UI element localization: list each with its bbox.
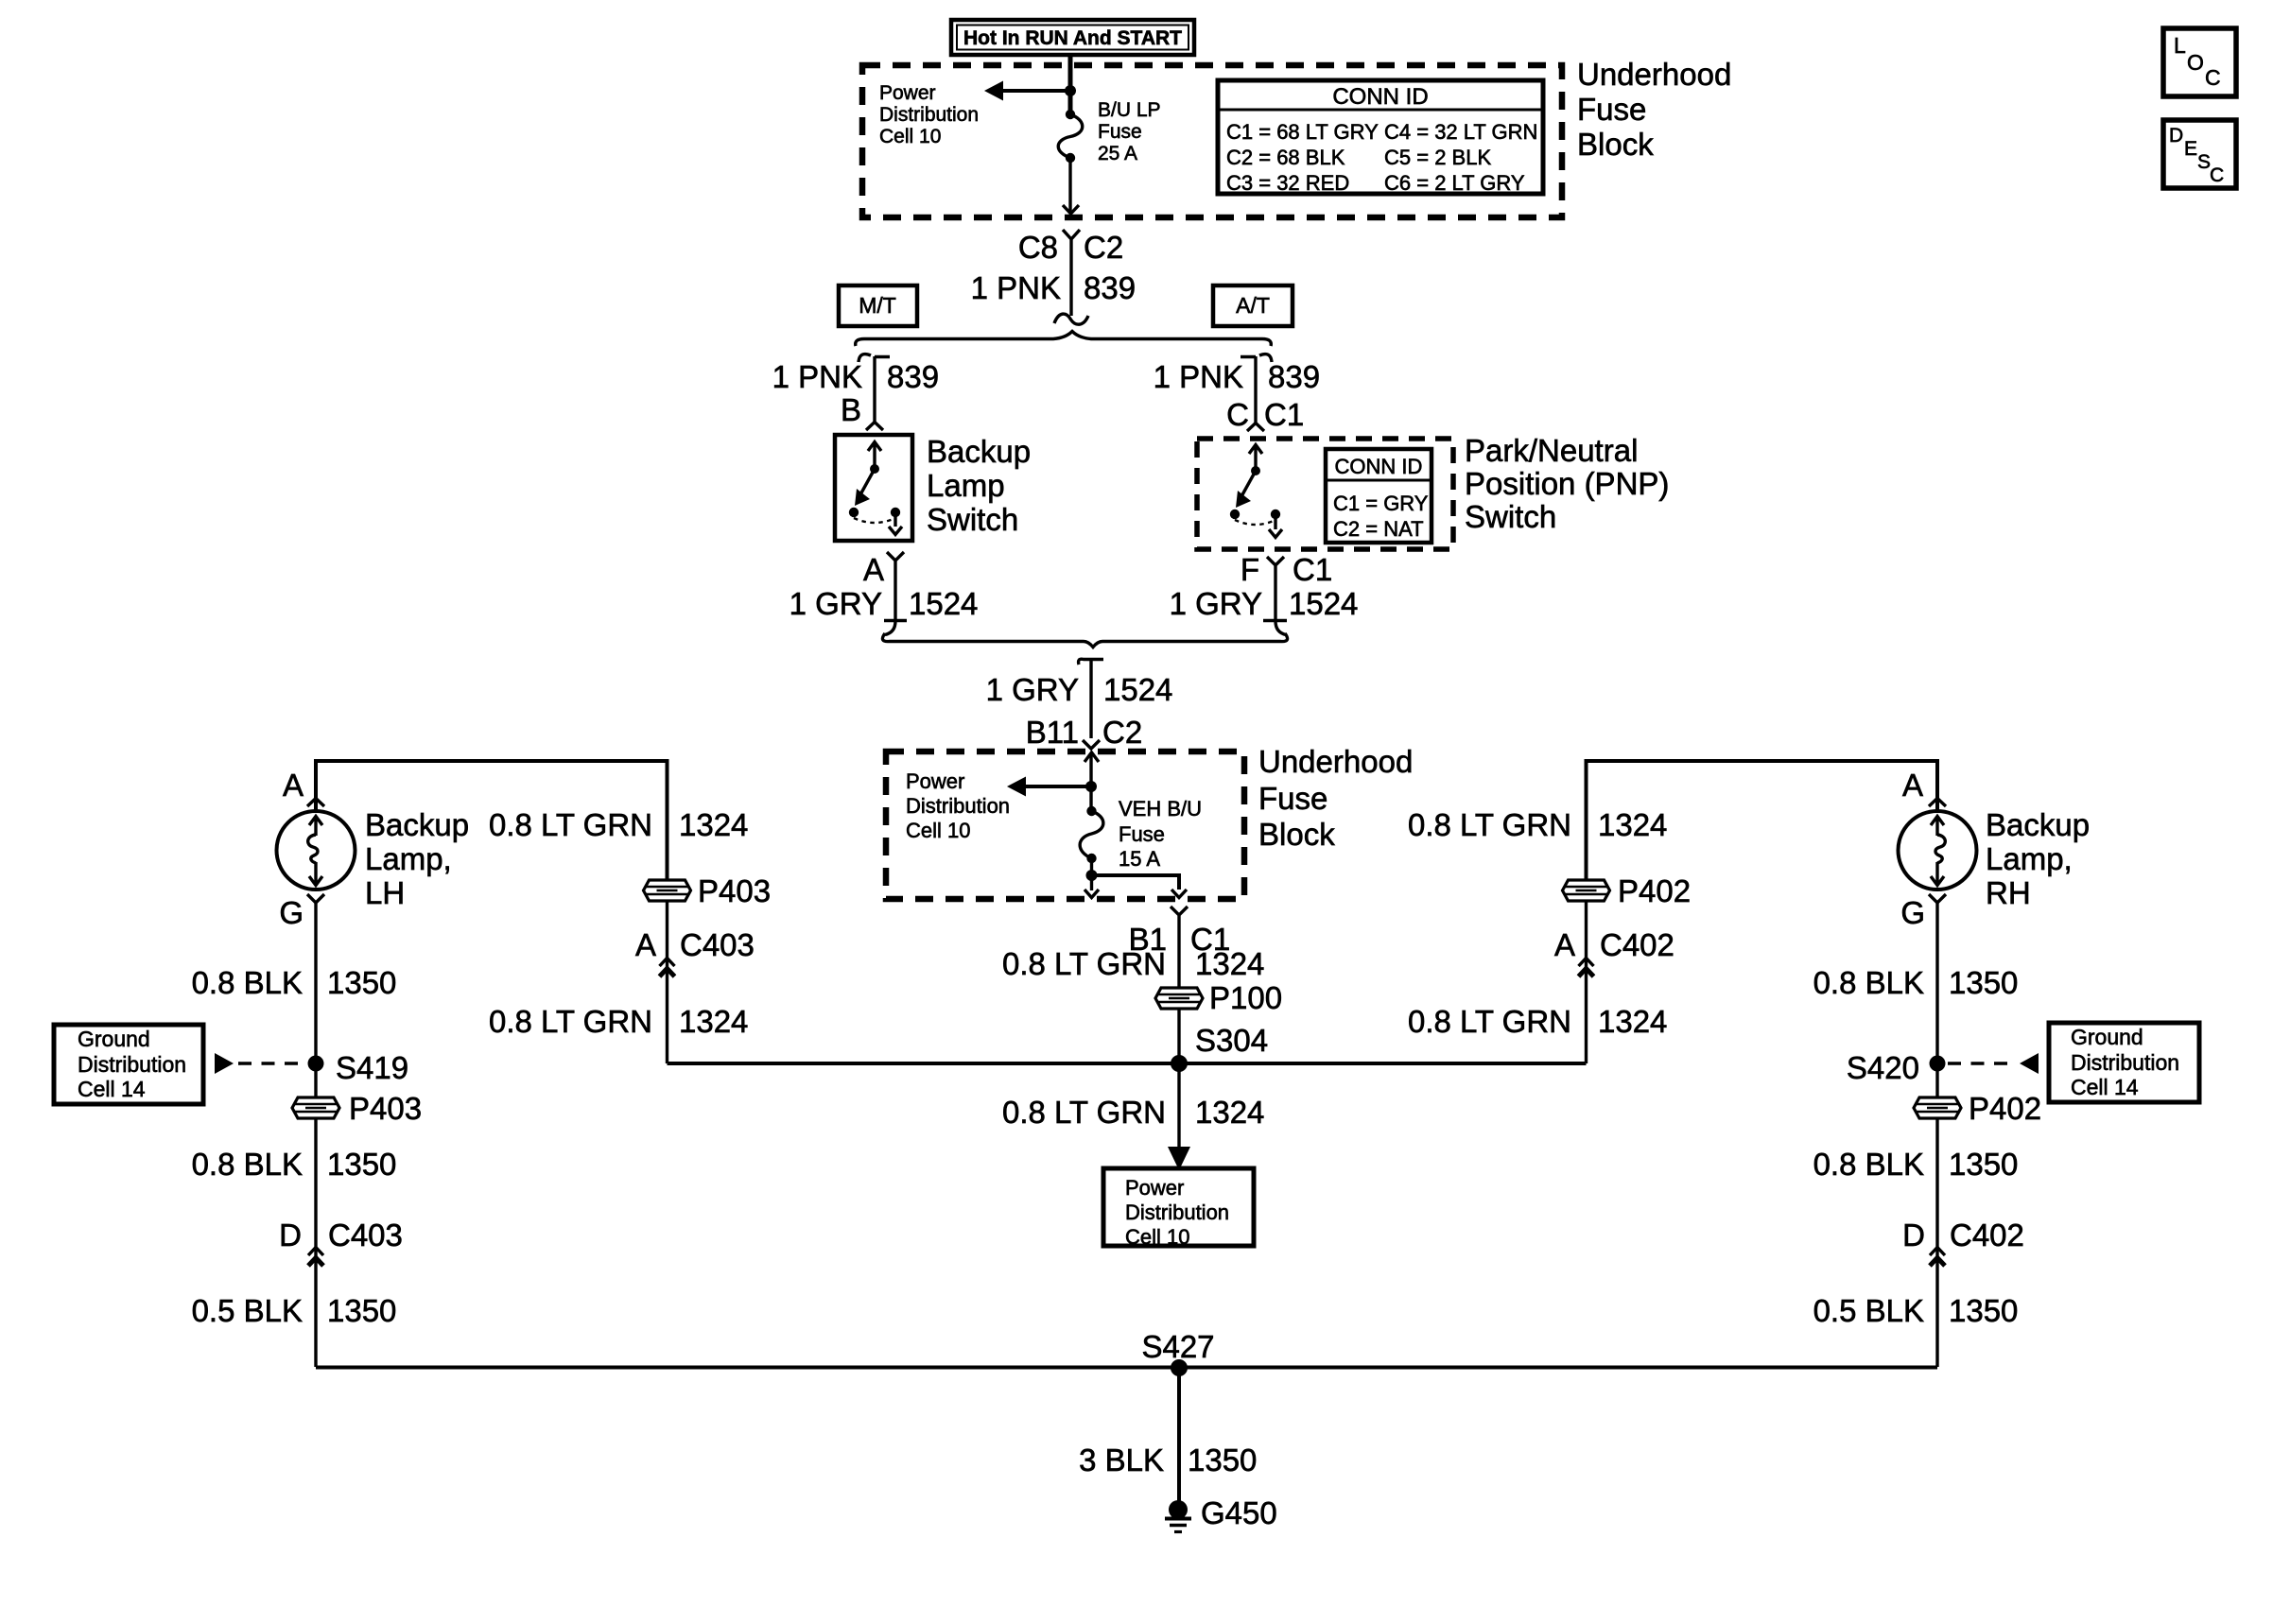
power distribution cell 10 destination box <box>1103 1168 1254 1249</box>
svg-text:C5 = 2 BLK: C5 = 2 BLK <box>1384 146 1491 169</box>
svg-text:D: D <box>279 1218 302 1253</box>
svg-text:Underhood: Underhood <box>1577 57 1731 92</box>
svg-text:G450: G450 <box>1201 1495 1277 1530</box>
wire fuse output down with arrowhead <box>1084 858 1099 898</box>
wire S304 down to power distribution <box>1177 1063 1180 1149</box>
park/neutral position switch dashed box <box>1197 439 1453 549</box>
wire lamp RH ground lead <box>1935 903 1938 1097</box>
node splice S304 <box>1171 1055 1188 1072</box>
svg-text:Position (PNP): Position (PNP) <box>1465 466 1669 501</box>
svg-text:Cell 14: Cell 14 <box>2071 1075 2139 1099</box>
ground distribution reference box (left) <box>54 1025 203 1104</box>
backup lamp switch internal contacts <box>849 441 902 535</box>
svg-text:Distribution: Distribution <box>2071 1050 2179 1075</box>
svg-text:0.8 LT GRN: 0.8 LT GRN <box>489 1004 652 1039</box>
svg-text:Switch: Switch <box>1465 499 1556 534</box>
svg-text:1 PNK: 1 PNK <box>772 359 862 394</box>
backup lamp RH bulb <box>1899 811 1977 890</box>
svg-text:1524: 1524 <box>1289 586 1358 621</box>
svg-text:G: G <box>279 895 304 930</box>
connector chevron into PNP switch <box>1247 423 1264 432</box>
svg-text:Fuse: Fuse <box>1119 822 1165 846</box>
wire hook into merge bracket (left) <box>885 621 895 635</box>
node junction at power distribution tap <box>1065 85 1076 96</box>
connector C8/C2 (fuse block output) <box>1018 230 1123 316</box>
svg-text:S420: S420 <box>1847 1050 1919 1085</box>
node splice S427 <box>1171 1359 1188 1376</box>
svg-text:0.8 LT GRN: 0.8 LT GRN <box>489 807 652 842</box>
svg-text:D: D <box>1902 1218 1925 1253</box>
svg-text:1350: 1350 <box>1949 1147 2018 1182</box>
svg-text:Cell 14: Cell 14 <box>78 1077 146 1101</box>
underhood fuse block 2 dashed box <box>886 752 1244 899</box>
CONN ID table (PNP switch) <box>1326 449 1431 543</box>
node tap to power distribution <box>1085 781 1097 792</box>
svg-text:839: 839 <box>1268 359 1320 394</box>
wire top rail right (C402 branch to lamp RH) <box>1587 761 1938 881</box>
svg-text:1324: 1324 <box>1195 1095 1264 1130</box>
connector chevron into lamp RH <box>1929 799 1946 807</box>
node fuse output branch <box>1086 870 1098 881</box>
svg-text:0.8 LT GRN: 0.8 LT GRN <box>1002 946 1166 981</box>
svg-text:Lamp: Lamp <box>927 468 1005 503</box>
svg-text:Power: Power <box>906 769 964 793</box>
wire P100 to S304 <box>1177 1010 1180 1063</box>
connector chevron into lamp LH <box>307 799 324 807</box>
svg-text:P100: P100 <box>1209 980 1282 1015</box>
connector A/C402 <box>1554 927 1674 976</box>
svg-text:C403: C403 <box>328 1218 403 1253</box>
svg-text:S: S <box>2197 151 2211 173</box>
svg-text:RH: RH <box>1986 875 2031 910</box>
connector Y below lamp RH <box>1929 894 1946 903</box>
svg-text:1 GRY: 1 GRY <box>1170 586 1262 621</box>
svg-text:839: 839 <box>1084 270 1136 305</box>
svg-text:Fuse: Fuse <box>1098 121 1142 143</box>
inline connector at top of M/T branch <box>859 354 890 362</box>
split bracket M/T vs A/T <box>856 332 1272 347</box>
svg-text:Switch: Switch <box>927 502 1018 537</box>
svg-text:L: L <box>2174 33 2186 58</box>
svg-text:C1 = GRY: C1 = GRY <box>1333 492 1429 515</box>
svg-text:Ground: Ground <box>78 1027 150 1051</box>
svg-text:C1 = 68 LT GRY: C1 = 68 LT GRY <box>1226 120 1379 144</box>
svg-text:M/T: M/T <box>859 293 896 318</box>
connector D/C403 <box>279 1218 403 1266</box>
svg-text:1524: 1524 <box>1103 672 1172 707</box>
svg-text:C1: C1 <box>1264 397 1304 432</box>
svg-text:Lamp,: Lamp, <box>365 841 452 876</box>
svg-text:C6 = 2 LT GRY: C6 = 2 LT GRY <box>1384 171 1525 195</box>
svg-text:0.8 BLK: 0.8 BLK <box>1813 1147 1924 1182</box>
svg-text:1350: 1350 <box>1949 1293 2018 1328</box>
connector B1/C1 below fuse block 2 <box>1129 907 1231 987</box>
dashed ground reference pointer (left) <box>215 1053 234 1074</box>
svg-text:1324: 1324 <box>679 1004 748 1039</box>
wire arrow to Power Distribution (block 2) <box>1022 785 1091 788</box>
svg-text:C: C <box>2205 65 2221 90</box>
svg-text:C3 = 32 RED: C3 = 32 RED <box>1226 171 1349 195</box>
connector A below switch <box>863 552 907 621</box>
dashed ground reference pointer (right) <box>1948 1062 2015 1065</box>
svg-text:C403: C403 <box>680 927 755 962</box>
svg-text:Power: Power <box>1125 1176 1184 1200</box>
svg-text:A: A <box>635 927 656 962</box>
ground G450 symbol <box>1165 1495 1277 1532</box>
grommet P402 (inner branch) <box>1563 873 1692 908</box>
svg-text:0.5 BLK: 0.5 BLK <box>1813 1293 1924 1328</box>
wire below P403 <box>314 1119 317 1367</box>
svg-text:Cell 10: Cell 10 <box>1125 1225 1189 1249</box>
svg-text:P402: P402 <box>1969 1091 2041 1126</box>
svg-text:0.8 BLK: 0.8 BLK <box>1813 965 1924 1000</box>
svg-text:C: C <box>1226 397 1249 432</box>
svg-text:1350: 1350 <box>327 965 396 1000</box>
node splice S419 <box>308 1056 324 1072</box>
svg-text:B11: B11 <box>1026 715 1079 750</box>
backup lamp switch box <box>835 435 912 541</box>
svg-text:E: E <box>2184 138 2197 160</box>
option box M/T <box>839 285 917 326</box>
inline connector at top of A/T branch <box>1241 354 1272 362</box>
svg-text:Backup: Backup <box>1986 807 2090 842</box>
arrowhead into power distribution box <box>1168 1147 1190 1170</box>
wire inner right branch lamp feed <box>1585 900 1588 1063</box>
svg-text:1350: 1350 <box>1949 965 2018 1000</box>
fuse VEH B/U Fuse 15 A <box>1080 806 1103 863</box>
svg-text:839: 839 <box>887 359 939 394</box>
svg-text:C: C <box>2210 164 2224 186</box>
svg-text:0.8 LT GRN: 0.8 LT GRN <box>1408 1004 1571 1039</box>
legend box LOC <box>2163 28 2236 96</box>
svg-text:A: A <box>1554 927 1575 962</box>
svg-text:C2: C2 <box>1084 230 1123 265</box>
wire inner left branch lamp feed <box>666 900 668 1063</box>
connector chevron into backup lamp switch <box>866 423 883 431</box>
svg-text:Power: Power <box>879 82 936 104</box>
svg-text:Cell 10: Cell 10 <box>879 126 941 147</box>
wire branch right and down with arrowhead <box>1092 875 1180 890</box>
svg-text:0.8 LT GRN: 0.8 LT GRN <box>1002 1095 1166 1130</box>
svg-text:CONN ID: CONN ID <box>1335 455 1423 478</box>
svg-text:Hot In RUN And START: Hot In RUN And START <box>963 27 1182 49</box>
svg-text:C402: C402 <box>1950 1218 2024 1253</box>
svg-text:B/U LP: B/U LP <box>1098 99 1161 121</box>
wire feed from Hot box <box>1068 55 1073 114</box>
svg-text:Backup: Backup <box>927 434 1031 469</box>
svg-text:1324: 1324 <box>679 807 748 842</box>
svg-text:A: A <box>283 768 304 803</box>
PNP switch internal contacts <box>1230 444 1282 538</box>
svg-text:A: A <box>1902 768 1923 803</box>
node splice S420 <box>1930 1056 1946 1072</box>
wire below P402 <box>1935 1119 1938 1367</box>
svg-text:Block: Block <box>1258 817 1335 852</box>
legend box DESC <box>2163 120 2236 188</box>
svg-text:1324: 1324 <box>1195 946 1264 981</box>
grommet P100 <box>1155 980 1282 1015</box>
splice tilde on feed wire <box>1054 314 1088 324</box>
underhood fuse block 1 dashed box <box>862 65 1562 217</box>
wire lamp LH ground lead <box>314 903 317 1097</box>
svg-text:0.8 BLK: 0.8 BLK <box>192 1147 303 1182</box>
svg-text:15 A: 15 A <box>1119 847 1160 871</box>
grommet P403 (inner branch) <box>644 873 772 908</box>
svg-text:1324: 1324 <box>1598 1004 1667 1039</box>
svg-text:1350: 1350 <box>327 1147 396 1182</box>
svg-text:Distribution: Distribution <box>78 1052 186 1077</box>
svg-text:C2 = 68 BLK: C2 = 68 BLK <box>1226 146 1345 169</box>
option box A/T <box>1213 285 1293 326</box>
wire S427 to ground G450 <box>1177 1368 1181 1503</box>
svg-text:P403: P403 <box>698 873 771 908</box>
connector F/C1 below PNP switch <box>1241 552 1332 621</box>
svg-text:D: D <box>2169 125 2183 147</box>
fuse B/U LP Fuse 25 A <box>1058 110 1083 163</box>
wire long feed bus between branches <box>668 1062 1587 1065</box>
connector B11/C2 <box>1026 715 1142 750</box>
svg-text:VEH B/U: VEH B/U <box>1119 797 1202 821</box>
wire A/T branch <box>1254 356 1257 423</box>
wire merged 1 GRY to fuse block 2 <box>1089 660 1092 738</box>
svg-text:3 BLK: 3 BLK <box>1079 1443 1164 1477</box>
connector D/C402 <box>1902 1218 2024 1266</box>
svg-text:Block: Block <box>1577 127 1654 162</box>
svg-text:S427: S427 <box>1141 1329 1214 1364</box>
grommet P402 (lamp branch) <box>1914 1091 2041 1126</box>
svg-text:Backup: Backup <box>365 807 469 842</box>
svg-text:0.5 BLK: 0.5 BLK <box>192 1293 303 1328</box>
svg-text:P403: P403 <box>349 1091 422 1126</box>
CONN ID table (fuse block 1) <box>1218 80 1543 195</box>
svg-text:Fuse: Fuse <box>1258 781 1327 816</box>
svg-text:C2 = NAT: C2 = NAT <box>1333 517 1424 541</box>
svg-text:Park/Neutral: Park/Neutral <box>1465 433 1638 468</box>
svg-text:1324: 1324 <box>1598 807 1667 842</box>
svg-text:C4 = 32 LT GRN: C4 = 32 LT GRN <box>1384 120 1537 144</box>
wire M/T branch <box>873 356 876 423</box>
feed label box "Hot In RUN And START" <box>951 20 1194 55</box>
svg-text:CONN ID: CONN ID <box>1332 84 1428 110</box>
svg-text:1524: 1524 <box>909 586 978 621</box>
svg-text:A: A <box>863 552 884 587</box>
svg-text:25 A: 25 A <box>1098 143 1137 164</box>
connector Y below lamp LH <box>307 894 324 903</box>
svg-text:P402: P402 <box>1618 873 1691 908</box>
wire entering fuse block 2 with up arrow <box>1084 752 1099 811</box>
svg-text:G: G <box>1900 895 1925 930</box>
svg-text:1 GRY: 1 GRY <box>986 672 1079 707</box>
wire bottom ground bus <box>316 1366 1937 1370</box>
svg-text:Cell 10: Cell 10 <box>906 819 970 842</box>
svg-text:Distribution: Distribution <box>879 104 979 126</box>
svg-text:O: O <box>2187 50 2204 75</box>
svg-text:1 GRY: 1 GRY <box>789 586 882 621</box>
merge bracket joining both legs <box>882 633 1287 648</box>
svg-text:1350: 1350 <box>327 1293 396 1328</box>
svg-text:Distribution: Distribution <box>1125 1201 1229 1224</box>
backup lamp LH bulb <box>277 811 356 890</box>
svg-text:C8: C8 <box>1018 230 1058 265</box>
wire top rail left (lamp LH to C403 branch) <box>316 761 668 881</box>
wire fuse output with arrowhead exiting block <box>1068 158 1071 214</box>
svg-text:1 PNK: 1 PNK <box>1154 359 1243 394</box>
svg-text:C1: C1 <box>1293 552 1332 587</box>
svg-text:Underhood: Underhood <box>1258 744 1413 779</box>
svg-text:1 PNK: 1 PNK <box>971 270 1061 305</box>
ground distribution reference box (right) <box>2049 1023 2199 1102</box>
grommet P403 (lamp branch) <box>292 1091 422 1126</box>
wire arrow to Power Distribution <box>998 89 1070 93</box>
svg-text:0.8 LT GRN: 0.8 LT GRN <box>1408 807 1571 842</box>
wire hook into merge bracket (right) <box>1275 621 1286 635</box>
svg-text:0.8 BLK: 0.8 BLK <box>192 965 303 1000</box>
svg-text:S419: S419 <box>336 1050 408 1085</box>
svg-text:LH: LH <box>365 875 405 910</box>
svg-text:F: F <box>1241 552 1259 587</box>
svg-text:Fuse: Fuse <box>1577 92 1646 127</box>
svg-text:B: B <box>841 392 861 427</box>
svg-text:S304: S304 <box>1195 1023 1268 1058</box>
svg-text:C2: C2 <box>1102 715 1142 750</box>
svg-text:1350: 1350 <box>1188 1443 1257 1477</box>
svg-text:C402: C402 <box>1600 927 1674 962</box>
inline connector below merge bracket <box>1079 659 1103 665</box>
svg-text:Lamp,: Lamp, <box>1986 841 2073 876</box>
connector A/C403 <box>635 927 755 976</box>
svg-text:Ground: Ground <box>2071 1025 2143 1049</box>
svg-text:Distribution: Distribution <box>906 794 1010 818</box>
svg-text:A/T: A/T <box>1236 293 1270 318</box>
